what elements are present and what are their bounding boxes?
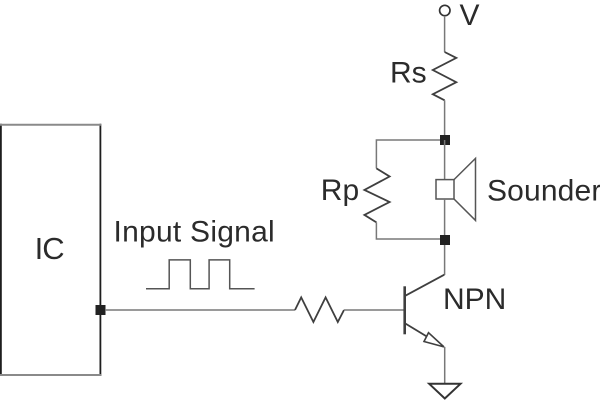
sounder box bbox=[436, 180, 454, 199]
svg-text:IC: IC bbox=[35, 231, 65, 266]
node 1 (Rs / Rp / sounder junction) bbox=[440, 135, 450, 145]
wire: Rp top branch bbox=[376, 140, 440, 168]
wire: node1 to sounder bbox=[444, 140, 446, 180]
wire: Rs to node 1 bbox=[444, 100, 446, 140]
svg-text:Sounder: Sounder bbox=[487, 175, 600, 208]
wire: V terminal to Rs bbox=[444, 16, 446, 52]
svg-text:Rp: Rp bbox=[321, 174, 359, 207]
wire: IC to base resistor bbox=[105, 309, 295, 311]
emitter arrowhead bbox=[424, 333, 444, 347]
wire: resistor to transistor base bbox=[344, 309, 404, 311]
transistor Q1 base bar bbox=[403, 286, 406, 334]
wire: sounder to node 2 bbox=[444, 199, 446, 240]
resistor (base, horizontal zigzag) bbox=[295, 297, 344, 322]
resistor Rs (vertical zigzag) bbox=[433, 52, 457, 100]
svg-text:NPN: NPN bbox=[443, 283, 506, 316]
wire: emitter to ground bbox=[444, 347, 446, 384]
svg-text:V: V bbox=[460, 0, 480, 32]
supply terminal circle bbox=[440, 5, 450, 15]
node: IC output pin bbox=[96, 305, 106, 315]
svg-text:Rs: Rs bbox=[390, 57, 427, 90]
sounder horn bbox=[454, 158, 476, 220]
svg-text:Input Signal: Input Signal bbox=[114, 216, 275, 249]
wire: Rp bottom branch bbox=[376, 222, 440, 239]
resistor Rp (vertical zigzag) bbox=[364, 168, 389, 222]
transistor Q1 emitter lead bbox=[405, 323, 444, 347]
square wave (input signal waveform) bbox=[146, 260, 255, 289]
transistor Q1 collector lead bbox=[405, 275, 445, 296]
wire: node 2 to collector bbox=[444, 245, 446, 275]
ground symbol bbox=[429, 384, 460, 399]
node 2 (sounder / Rp / collector junction) bbox=[440, 235, 450, 245]
IC box bbox=[0, 124, 101, 376]
